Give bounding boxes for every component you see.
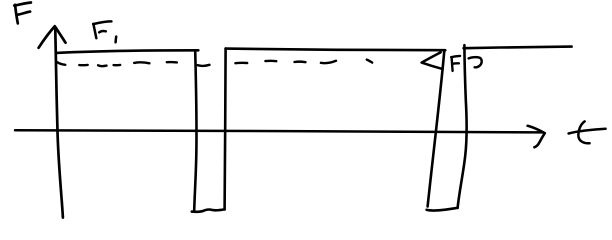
- pulse 1 bottom: [192, 209, 225, 211]
- waveform top segment 2: [226, 49, 446, 51]
- dashed F1 level: dash 9: [265, 60, 276, 63]
- y-axis line: [55, 30, 63, 218]
- dashed F1 level: dash 7 inside pulse: [198, 65, 210, 66]
- waveform top segment 3: [464, 47, 572, 49]
- label average force: right bracket: [469, 57, 482, 67]
- pulse 2 bottom: [427, 208, 458, 211]
- dashed F1 level: dash 10: [295, 60, 306, 63]
- pulse 2 left edge: [428, 51, 445, 207]
- pulse 1 right edge: [225, 49, 226, 210]
- pulse 1 left edge: [194, 51, 196, 211]
- dashed F1 level: dash 11: [321, 61, 336, 63]
- dashed F1 level: dash 3: [98, 64, 106, 67]
- label average force: left angle bracket: [422, 52, 441, 68]
- dashed F1 level: dash 2: [79, 64, 87, 67]
- dashed F1 level: dash 4: [114, 64, 121, 67]
- dashed F1 level: dash 5: [134, 61, 149, 64]
- x-axis line: [15, 130, 543, 132]
- dashed F1 level: dash 6: [167, 61, 177, 64]
- label F1: [93, 21, 116, 42]
- pulse 2 right edge: [458, 45, 467, 208]
- y-axis arrowhead: [39, 26, 66, 48]
- dashed F1 level: tick at axis: [57, 62, 66, 65]
- label F (vertical axis): [14, 3, 31, 24]
- label average force: F: [451, 56, 460, 71]
- dashed F1 level: dash 8: [235, 62, 247, 65]
- label t (time axis): [569, 121, 606, 143]
- x-axis arrowhead: [528, 126, 545, 147]
- waveform top segment 1: [56, 50, 198, 53]
- dashed F1 level: dash 12: [367, 60, 372, 63]
